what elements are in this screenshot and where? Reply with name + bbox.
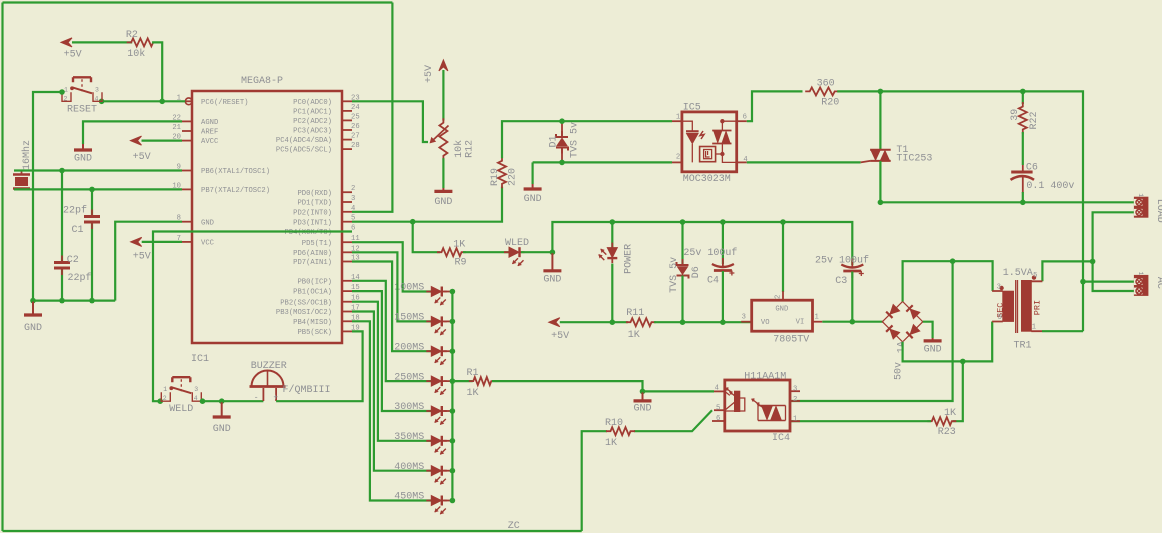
svg-text:1K: 1K <box>467 388 479 399</box>
junction R23 branch <box>960 359 966 365</box>
junction LED 200MS cathode <box>444 350 453 352</box>
junction zero cross branch <box>950 258 956 264</box>
wire VCC <box>142 241 182 243</box>
diode D1 TVS <box>561 121 563 136</box>
svg-text:PD6(AIN0): PD6(AIN0) <box>293 250 332 258</box>
wire IC5 gnd stub <box>531 162 533 184</box>
junction AC hot <box>1080 279 1086 285</box>
junction rail D6 <box>680 319 686 325</box>
svg-text:H11AA1M: H11AA1M <box>744 372 786 383</box>
svg-text:IC1: IC1 <box>191 354 209 365</box>
svg-text:1: 1 <box>1032 324 1036 332</box>
resistor R23 <box>927 417 956 425</box>
LED POWER <box>611 222 613 248</box>
svg-text:4: 4 <box>95 95 99 102</box>
svg-text:1K: 1K <box>605 438 617 449</box>
IC MEGA8-P left pin numbers <box>0 0 1 1</box>
ground symbol crystal rail <box>32 302 34 314</box>
junction T1 bottom <box>878 200 884 206</box>
svg-text:1: 1 <box>815 314 819 322</box>
ground symbol IC4 <box>642 392 644 400</box>
svg-text:IC4: IC4 <box>772 433 790 444</box>
wire crystal ground rail <box>33 300 115 302</box>
ground symbol AGND <box>82 144 84 149</box>
resistor R2 <box>127 38 158 46</box>
svg-text:3: 3 <box>194 386 198 393</box>
svg-text:PD5(T1): PD5(T1) <box>302 240 332 248</box>
capacitor C4 <box>722 222 724 264</box>
svg-text:26: 26 <box>351 123 360 131</box>
svg-text:22pf: 22pf <box>68 272 92 284</box>
svg-text:25v 100uf: 25v 100uf <box>815 255 869 267</box>
svg-text:R10: R10 <box>605 418 623 429</box>
wire ZC net bottom segment <box>3 530 582 532</box>
svg-text:28: 28 <box>351 142 360 150</box>
resistor R10 <box>606 427 635 435</box>
svg-text:AGND: AGND <box>201 119 218 127</box>
wire MCU pin17 to LED 400MS <box>352 312 431 471</box>
junction LED 150MS cathode <box>444 320 453 322</box>
junction AC neutral <box>1090 259 1096 265</box>
svg-text:PD0(RXD): PD0(RXD) <box>297 190 332 198</box>
svg-text:AC: AC <box>1154 277 1162 289</box>
svg-text:1: 1 <box>1137 271 1144 275</box>
svg-text:220: 220 <box>508 168 519 186</box>
capacitor C6 <box>1011 172 1035 180</box>
wire D1 cathode to IC5 pin2 <box>561 148 563 163</box>
junction buzzer ground tap <box>219 398 225 404</box>
svg-text:22pf: 22pf <box>63 205 87 217</box>
svg-text:MOC3023M: MOC3023M <box>683 174 731 185</box>
wire 7805 gnd pin <box>782 222 784 292</box>
capacitor C2 <box>54 256 70 276</box>
junction T1 top <box>878 89 884 95</box>
svg-text:TVS 5v: TVS 5v <box>570 122 581 158</box>
svg-text:2: 2 <box>163 395 167 402</box>
junction LED 350MS cathode <box>444 440 453 442</box>
svg-text:360: 360 <box>817 79 835 90</box>
wire ZC to MCU pin 4 INT0 <box>352 3 392 212</box>
svg-text:+5V: +5V <box>424 65 435 83</box>
svg-text:C2: C2 <box>67 255 79 266</box>
svg-text:PD1(TXD): PD1(TXD) <box>297 200 332 208</box>
svg-text:PC5(ADC5/SCL): PC5(ADC5/SCL) <box>276 147 332 155</box>
svg-text:5: 5 <box>1033 272 1037 280</box>
svg-text:PB2(SS/OC1B): PB2(SS/OC1B) <box>280 299 332 307</box>
wire PD4 to WELD <box>153 232 352 402</box>
junction LED 100MS cathode <box>444 291 453 293</box>
IC IC5 internal led <box>682 121 704 162</box>
junction ground bus C4 <box>720 219 726 225</box>
IC MEGA8-P pin 1 bubble <box>185 98 192 105</box>
svg-text:7805TV: 7805TV <box>773 334 809 345</box>
svg-text:PB6(XTAL1/TOSC1): PB6(XTAL1/TOSC1) <box>201 168 270 176</box>
svg-text:ZC: ZC <box>508 521 520 532</box>
svg-text:200MS: 200MS <box>394 342 424 353</box>
wire R22 branch <box>1022 91 1024 104</box>
svg-text:AREF: AREF <box>201 129 218 137</box>
wire WELD to buzzer minus <box>203 400 264 402</box>
svg-text:R23: R23 <box>938 427 956 438</box>
svg-text:AVCC: AVCC <box>201 138 219 146</box>
IC IC5 MOC3023M box <box>682 112 737 172</box>
wire buzzer plus to MCU pin19 <box>276 331 363 401</box>
svg-text:25: 25 <box>351 113 360 121</box>
svg-text:PB4(MISO): PB4(MISO) <box>293 319 332 327</box>
svg-text:PB3(MOSI/OC2): PB3(MOSI/OC2) <box>276 309 332 317</box>
svg-text:450MS: 450MS <box>394 492 424 503</box>
svg-text:3: 3 <box>793 386 797 394</box>
junction INT1 branch <box>410 219 416 225</box>
svg-text:150MS: 150MS <box>394 313 424 324</box>
svg-text:GND: GND <box>543 274 561 285</box>
svg-text:100MS: 100MS <box>394 283 424 294</box>
wire LOAD line <box>880 201 1134 203</box>
wire MCU pin15 to LED 300MS <box>352 291 431 411</box>
svg-text:PD2(INT0): PD2(INT0) <box>293 209 332 217</box>
svg-text:C6: C6 <box>1026 163 1038 174</box>
wire bridge top to transformer SEC3 <box>903 261 993 301</box>
svg-text:2: 2 <box>676 153 680 161</box>
wire AC neutral to primary <box>1042 261 1092 281</box>
resistor R20 <box>805 87 839 95</box>
wire +5V rail to R11 <box>560 321 628 323</box>
wire R22 to C6 <box>1022 132 1024 165</box>
wire IC5 pin4 to T1 gate <box>747 161 861 163</box>
svg-text:PC0(ADC0): PC0(ADC0) <box>293 99 332 107</box>
svg-text:PB1(OC1A): PB1(OC1A) <box>293 289 332 297</box>
svg-text:WELD: WELD <box>169 404 193 415</box>
svg-text:GND: GND <box>213 424 231 435</box>
svg-text:+5V: +5V <box>133 252 151 263</box>
svg-text:10k: 10k <box>127 48 145 60</box>
junction ground bus D6 <box>680 219 686 225</box>
svg-text:PD4(XCK/T0): PD4(XCK/T0) <box>285 229 332 237</box>
svg-text:R19: R19 <box>490 168 501 186</box>
wire WLED cathode <box>521 251 552 253</box>
IC MEGA8-P U1 box <box>192 91 342 343</box>
svg-text:3: 3 <box>95 86 99 93</box>
svg-text:+5V: +5V <box>133 152 151 163</box>
wire S1 to ground rail <box>33 92 62 301</box>
svg-text:3: 3 <box>997 284 1001 292</box>
resistor R11 <box>626 318 656 326</box>
junction VI C3 <box>850 319 856 325</box>
svg-text:RESET: RESET <box>67 104 97 115</box>
wire MCU pin11 to LED 100MS <box>352 242 431 291</box>
svg-text:PC4(ADC4/SDA): PC4(ADC4/SDA) <box>276 137 332 145</box>
junction WLED ground <box>550 249 556 255</box>
svg-text:PC2(ADC2): PC2(ADC2) <box>293 118 332 126</box>
wire MCU pin14 to LED 250MS <box>352 281 431 381</box>
svg-text:TR1: TR1 <box>1014 340 1032 351</box>
svg-text:27: 27 <box>351 133 360 141</box>
svg-text:400MS: 400MS <box>394 462 424 473</box>
capacitor C1 <box>84 210 100 230</box>
svg-text:R22: R22 <box>1029 111 1040 129</box>
wire reset node to MCU pin1 <box>102 100 186 102</box>
junction rail C4 <box>720 319 726 325</box>
junction ground rail at GND <box>30 298 36 304</box>
svg-text:21: 21 <box>172 124 181 132</box>
IC IC4 internal triac <box>752 399 785 421</box>
wire ZC net left segment <box>1 3 3 532</box>
wire XTAL2 <box>14 188 182 190</box>
wire zero cross to IC4 pin2 <box>790 261 953 401</box>
IC MEGA8-P left pin stubs <box>182 101 192 242</box>
svg-text:GND: GND <box>74 154 92 165</box>
svg-text:PC6(/RESET): PC6(/RESET) <box>201 99 248 107</box>
svg-text:2: 2 <box>793 396 797 404</box>
supply +5V arrow near R2 <box>61 38 72 47</box>
svg-text:1K: 1K <box>453 239 465 250</box>
wire INT1 PD3 <box>352 187 502 222</box>
svg-text:IC5: IC5 <box>683 102 701 113</box>
svg-text:6: 6 <box>716 415 720 423</box>
svg-text:50v: 50v <box>894 362 905 380</box>
svg-text:+5V: +5V <box>551 331 569 342</box>
junction XTAL1 C2 <box>59 168 65 174</box>
IC IC5 internal detector box <box>700 147 723 162</box>
wire IC5 pin6 up <box>747 91 803 121</box>
wire ZC net top segment <box>3 1 393 3</box>
svg-text:GND: GND <box>775 306 788 314</box>
svg-text:16Mhz: 16Mhz <box>21 140 33 170</box>
svg-text:1: 1 <box>676 114 680 122</box>
ground symbol bridge <box>932 338 934 340</box>
svg-text:PC3(ADC3): PC3(ADC3) <box>293 128 332 136</box>
junction IC4 ground tap <box>640 389 646 395</box>
junction ground rail C2 <box>59 298 65 304</box>
junction XTAL2 C1 <box>89 187 95 193</box>
svg-text:25v 100uf: 25v 100uf <box>683 247 737 259</box>
wire R23 to SEC9 net <box>953 361 963 421</box>
junction ground rail C1 <box>89 298 95 304</box>
IC MEGA8-P right pin stubs <box>342 101 352 331</box>
svg-text:GND: GND <box>924 345 942 356</box>
wire ZC to R10 <box>582 431 607 531</box>
switch S1 RESET <box>62 77 102 101</box>
connector X1 LOAD <box>1134 197 1149 218</box>
junction ground bus 7805 <box>780 219 786 225</box>
wire R2 to reset node <box>152 42 162 101</box>
svg-text:1: 1 <box>1137 193 1144 197</box>
svg-text:4: 4 <box>351 205 355 213</box>
svg-text:4: 4 <box>194 395 198 402</box>
wire XTAL1 <box>14 169 182 171</box>
wire MCU pin13 to LED 200MS <box>352 262 431 352</box>
junction ground bus POWER led <box>610 219 616 225</box>
bridge rectifier B1 <box>882 302 922 342</box>
svg-text:1.5VA: 1.5VA <box>1003 268 1033 279</box>
svg-text:0.1 400v: 0.1 400v <box>1026 181 1074 192</box>
svg-text:6: 6 <box>743 114 747 122</box>
svg-text:GND: GND <box>24 323 42 334</box>
svg-text:1K: 1K <box>944 408 956 419</box>
wire C1 branch <box>91 189 93 216</box>
svg-text:24: 24 <box>351 104 360 112</box>
resistor R19 <box>498 156 506 188</box>
svg-text:D6: D6 <box>691 266 702 278</box>
IC IC4 internal opto LED <box>725 388 745 421</box>
wire R19 top to IC5 pin1 <box>502 121 672 158</box>
svg-text:POWER: POWER <box>624 244 635 274</box>
junction WELD pin2 <box>157 398 163 404</box>
svg-text:3: 3 <box>742 314 746 322</box>
supply +5V arrow rail <box>549 318 560 327</box>
svg-text:1: 1 <box>163 386 167 393</box>
svg-text:R2: R2 <box>126 30 138 41</box>
junction reset node <box>159 99 165 105</box>
junction rail POWER led <box>610 319 616 325</box>
IC IC5 internal triac <box>712 120 737 163</box>
svg-text:+5V: +5V <box>64 50 82 61</box>
junction WELD pin4 <box>200 398 206 404</box>
svg-text:5: 5 <box>716 404 720 412</box>
wire POWER led to +5V rail <box>611 264 613 323</box>
svg-text:VI: VI <box>796 318 805 326</box>
resistor R22 <box>1019 102 1027 134</box>
IC IC4 H11AA1M box <box>725 380 790 431</box>
svg-text:F/QMBIII: F/QMBIII <box>283 384 331 396</box>
wire R20 to load line <box>837 91 1083 331</box>
wire +5V to R2 <box>72 41 132 43</box>
switch S2 WELD <box>161 377 201 401</box>
svg-text:3: 3 <box>351 195 355 203</box>
wire LED cathode trunk <box>451 292 453 501</box>
wire R12 to ground <box>442 158 444 188</box>
wire LOAD lower <box>1093 212 1134 291</box>
triac T1 TIC253 <box>879 91 881 149</box>
wire bridge bottom to SEC9 <box>903 322 993 362</box>
junction switch S1 pin4 <box>99 99 105 105</box>
svg-text:GND: GND <box>201 219 214 227</box>
wire primary pin1 <box>1042 330 1083 332</box>
ground symbol WELD <box>221 402 223 416</box>
wire C6 to LOAD line <box>1022 177 1024 193</box>
ground symbol WLED <box>551 253 553 270</box>
svg-text:TIC253: TIC253 <box>896 154 932 165</box>
svg-text:R1: R1 <box>467 368 479 379</box>
wire MCU pin18 to LED 450MS <box>352 321 431 500</box>
wire ground bus <box>552 222 852 265</box>
svg-text:C1: C1 <box>72 225 84 236</box>
svg-text:GND: GND <box>633 404 651 415</box>
svg-text:1K: 1K <box>628 330 640 341</box>
wire PC0 to R12 wiper <box>352 101 428 142</box>
svg-text:R12: R12 <box>465 140 476 158</box>
potentiometer R12 <box>439 60 448 71</box>
wire ground rail to MCU pin8 GND <box>115 222 182 301</box>
svg-text:VCC: VCC <box>201 240 215 248</box>
wire C2 branch <box>61 171 63 263</box>
svg-text:PD7(AIN1): PD7(AIN1) <box>293 259 332 267</box>
junction R22 top <box>1020 89 1026 95</box>
svg-text:MEGA8-P: MEGA8-P <box>241 76 283 87</box>
junction LED 250MS cathode <box>444 380 453 382</box>
wire MCU pin16 to LED 350MS <box>352 302 431 441</box>
IC IC5 pin stubs <box>672 121 747 162</box>
svg-text:9: 9 <box>998 314 1002 322</box>
wire R9 to WLED <box>463 251 509 253</box>
junction D1 bottom <box>559 160 565 166</box>
junction D1 anode <box>559 118 565 124</box>
svg-text:39: 39 <box>1010 109 1021 121</box>
wire R1 to IC4 pin4 <box>492 381 714 391</box>
supply +5V arrow VCC <box>131 237 142 246</box>
wire MCU pin12 to LED 150MS <box>352 252 431 321</box>
svg-text:R20: R20 <box>821 97 839 108</box>
capacitor C3 <box>841 259 864 279</box>
wire R23 to IC4 pin1 <box>790 420 931 422</box>
wire R11 to 7805 VO <box>654 321 752 323</box>
wire T1 to LOAD line <box>879 161 881 202</box>
svg-text:2: 2 <box>775 295 783 299</box>
junction LED 300MS cathode <box>444 410 453 412</box>
connector X2 AC <box>1134 275 1149 296</box>
wire R10 to IC4 pin5 <box>634 410 712 431</box>
wire C4 to +5V rail <box>722 271 724 322</box>
wire 7805 VI to bridge <box>822 321 883 323</box>
svg-text:PC1(ADC1): PC1(ADC1) <box>293 109 332 117</box>
svg-text:PD3(INT1): PD3(INT1) <box>293 219 332 227</box>
svg-text:D1: D1 <box>549 135 560 147</box>
svg-text:4: 4 <box>715 385 719 393</box>
wire C3 to VI <box>851 272 853 322</box>
svg-text:VO: VO <box>761 319 770 327</box>
svg-text:250MS: 250MS <box>394 372 424 383</box>
wire LED trunk to R1 <box>452 380 472 382</box>
svg-text:1: 1 <box>793 416 797 424</box>
svg-text:2: 2 <box>351 185 355 193</box>
svg-text:-: - <box>254 394 259 403</box>
wire AGND to ground <box>83 121 182 144</box>
svg-text:PB7(XTAL2/TOSC2): PB7(XTAL2/TOSC2) <box>201 187 270 195</box>
diode D6 TVS <box>681 222 683 265</box>
svg-text:300MS: 300MS <box>394 402 424 413</box>
IC U2 7805TV box <box>752 300 813 331</box>
junction LED 400MS cathode <box>444 470 453 472</box>
IC IC4 pin stubs <box>712 391 800 421</box>
IC U2 pin stubs <box>741 291 822 322</box>
svg-text:TVS 5v: TVS 5v <box>669 257 680 293</box>
svg-text:10k: 10k <box>453 140 465 158</box>
junction S1 pin2 <box>59 89 65 95</box>
svg-text:R9: R9 <box>455 257 467 268</box>
resistor R1 <box>469 377 496 385</box>
svg-text:2: 2 <box>64 95 68 102</box>
resistor R9 <box>437 248 466 256</box>
ground symbol R12 <box>442 188 444 190</box>
svg-text:PRI: PRI <box>1032 300 1042 315</box>
supply +5V arrow AVCC <box>131 136 142 145</box>
svg-text:R11: R11 <box>626 308 644 319</box>
wire AC hot to connector <box>1083 281 1134 283</box>
svg-text:350MS: 350MS <box>394 432 424 443</box>
junction LED 450MS cathode <box>444 500 453 502</box>
wire AVCC <box>142 140 183 142</box>
wire D6 to +5V rail <box>681 276 683 323</box>
svg-text:GND: GND <box>434 197 452 208</box>
svg-text:LOAD: LOAD <box>1154 199 1162 223</box>
svg-text:C3: C3 <box>835 276 847 287</box>
svg-text:PB0(ICP): PB0(ICP) <box>297 278 332 286</box>
svg-text:GND: GND <box>524 194 542 205</box>
ground symbol IC5 input <box>532 184 534 188</box>
svg-text:PB5(SCK): PB5(SCK) <box>297 329 332 337</box>
junction C6 bottom <box>1020 200 1026 206</box>
wire bridge right to ground <box>923 322 933 338</box>
